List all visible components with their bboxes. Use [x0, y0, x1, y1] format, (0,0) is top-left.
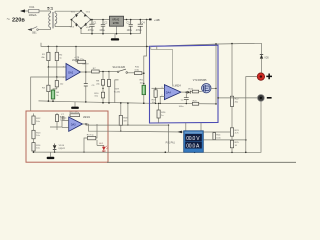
- resistor R9 on output vertical: [108, 72, 110, 103]
- diode VD2: [84, 12, 91, 17]
- wire vertical x128: [127, 103, 129, 125]
- node bottom bus divider: [231, 152, 233, 154]
- svg-text:DA2: DA2: [68, 71, 74, 75]
- resistor R14: [33, 151, 35, 152]
- diode VD4: [84, 23, 91, 29]
- svg-text:00.0 A: 00.0 A: [186, 144, 200, 150]
- resistor R17 in box right: [88, 136, 96, 139]
- transistor VT1 MOSFET: [202, 84, 211, 93]
- divider chain R22: [231, 44, 233, 97]
- svg-text:100к: 100к: [134, 69, 139, 71]
- switch SB1: [30, 27, 38, 31]
- ground bar in red box: [50, 152, 52, 157]
- svg-text:~: ~: [7, 17, 11, 23]
- wire DA4 output: [181, 91, 186, 93]
- wire DA3 output branches: [83, 124, 109, 131]
- svg-text:15к: 15к: [94, 96, 97, 98]
- capacitor C3: [129, 20, 133, 34]
- wire bottom long ground: [107, 161, 296, 163]
- node gnd reg: [116, 33, 118, 35]
- node R2 bottom: [56, 76, 58, 78]
- node rail C3: [130, 19, 132, 21]
- potentiometer R11 green right: [142, 85, 146, 95]
- node bridge right: [90, 19, 92, 21]
- node rail C1: [91, 19, 93, 21]
- resistor R16 horizontal above op-amp: [70, 114, 80, 117]
- arrow on bottom AC line: [28, 28, 33, 31]
- svg-text:10к: 10к: [36, 135, 39, 137]
- svg-text:DA3: DA3: [71, 123, 76, 126]
- svg-text:R6 470к: R6 470к: [76, 59, 84, 61]
- ground bar under regulator: [114, 34, 116, 39]
- svg-text:КД522: КД522: [59, 148, 66, 150]
- resistor R13: [33, 139, 35, 143]
- TL431 VD9: [115, 80, 119, 103]
- diode VD11: [187, 91, 190, 94]
- rail end tick: [149, 19, 152, 21]
- node supply R2 top: [56, 46, 58, 48]
- wire DA1 noninv input: [48, 66, 66, 68]
- svg-text:DA4: DA4: [166, 91, 172, 95]
- node bridge left: [71, 19, 73, 21]
- wire feed from rail down: [144, 20, 147, 86]
- wire feedback vertical with capacitor C5: [85, 62, 87, 102]
- node R10 to feed: [143, 72, 145, 74]
- node plus wire at bottom bus: [245, 152, 247, 154]
- node bus R3: [48, 100, 50, 102]
- arrow into meter: [178, 131, 182, 134]
- node bus pot left: [52, 100, 54, 102]
- node R1 bottom: [48, 66, 50, 68]
- resistor R10: [135, 72, 142, 75]
- op-amp DA2.1: [66, 64, 81, 81]
- resistor R6 feedback top: [75, 46, 77, 48]
- wire secondary top to bridge: [55, 10, 81, 12]
- wire meter right top to divider: [203, 131, 232, 133]
- svg-text:00.0 V: 00.0 V: [186, 136, 200, 142]
- meter module PV1/PA1: [184, 131, 204, 153]
- svg-text:20к: 20к: [235, 101, 238, 103]
- svg-text:10к: 10к: [152, 102, 155, 104]
- resistor R3 lower left chain: [47, 67, 49, 101]
- terminal plus: [257, 73, 264, 80]
- wire secondary bottom to bridge left: [55, 20, 71, 27]
- node bottom bus x194: [194, 152, 196, 154]
- node rail C4: [140, 19, 142, 21]
- node bridge bottom: [80, 28, 82, 30]
- svg-text:КР142: КР142: [112, 19, 119, 21]
- resistor R1: [47, 46, 49, 67]
- fuse FU1: [29, 9, 40, 12]
- svg-text:1М: 1М: [123, 120, 126, 122]
- ground bar on bus: [74, 102, 76, 107]
- wire meter right bottom shunt: [203, 139, 246, 141]
- wire vertical x213 from top wire to bus: [215, 44, 217, 104]
- svg-text:+12В: +12В: [154, 19, 160, 22]
- svg-text:220в: 220в: [12, 17, 25, 23]
- capacitor C4: [138, 20, 143, 34]
- svg-text:10к: 10к: [140, 82, 143, 84]
- regulator DA1: [110, 16, 124, 26]
- resistor R21 gate: [192, 90, 198, 93]
- svg-text:100н: 100н: [179, 106, 185, 108]
- wire stub inner rect second vertical: [156, 46, 158, 50]
- node rail C2: [102, 19, 104, 21]
- LED HL1: [103, 145, 105, 146]
- resistor R7 output: [92, 70, 100, 73]
- wire y131 from red box to meter: [108, 130, 184, 133]
- node rail reg out: [126, 19, 128, 21]
- node supply R1 top: [48, 46, 50, 48]
- svg-text:100мА: 100мА: [29, 13, 37, 17]
- svg-text:SB1: SB1: [32, 32, 37, 35]
- resistor R15 in box: [56, 113, 58, 127]
- svg-text:100н: 100н: [99, 29, 105, 32]
- svg-text:FU1: FU1: [30, 5, 35, 9]
- diode VD5 output: [261, 43, 263, 54]
- op-amp DA4: [164, 85, 181, 100]
- wire supply distribution long horizontal: [41, 43, 262, 47]
- svg-text:TL431: TL431: [114, 92, 121, 94]
- wire drain to vertical: [211, 87, 216, 89]
- transformer T1: [49, 11, 57, 30]
- red highlight box: [26, 111, 108, 162]
- resistor R26 in blue box bottom: [158, 103, 160, 122]
- svg-text:470м: 470м: [88, 29, 94, 32]
- wire +rail: [91, 19, 150, 21]
- svg-text:R17 1к: R17 1к: [87, 134, 94, 136]
- node bus R9: [108, 102, 110, 104]
- node output junction: [108, 71, 110, 73]
- wire plus to down corner: [246, 77, 257, 153]
- node gnd C3: [130, 33, 132, 35]
- resistor R23: [230, 128, 233, 136]
- resistor R2: [56, 46, 58, 77]
- resistor R20 on bus: [192, 102, 198, 105]
- svg-text:SA1 02-02R: SA1 02-02R: [113, 66, 126, 69]
- node gnd C2: [102, 33, 104, 35]
- capacitor C1: [89, 20, 94, 34]
- wire vertical x168: [168, 125, 170, 152]
- svg-text:10к: 10к: [36, 148, 39, 150]
- svg-text:R16 470к: R16 470к: [70, 112, 79, 114]
- wire meter stubs from blue box bottom: [186, 123, 201, 131]
- wires DA3 inputs: [50, 121, 69, 131]
- svg-text:10к: 10к: [36, 121, 39, 123]
- wire DA4 inv input: [160, 96, 164, 103]
- svg-text:LM324: LM324: [173, 84, 181, 87]
- svg-text:1к: 1к: [161, 115, 163, 117]
- wire DA4 noninv input: [152, 87, 165, 89]
- resistor R19 input divider: [155, 88, 156, 89]
- node supply feed join: [146, 46, 148, 48]
- svg-text:VT1 IRF5305: VT1 IRF5305: [193, 80, 207, 82]
- node bridge top: [80, 10, 82, 12]
- arrow on top AC line: [20, 9, 25, 12]
- svg-text:100н: 100н: [127, 29, 133, 32]
- svg-text:10к: 10к: [60, 84, 63, 86]
- resistor R18 external right of red box: [120, 103, 122, 131]
- wire top AC line: [21, 10, 51, 12]
- svg-text:43к: 43к: [41, 57, 44, 59]
- svg-text:VD10: VD10: [59, 145, 65, 147]
- resistor R12: [33, 114, 35, 131]
- wire box bottom internal: [34, 140, 104, 152]
- shunt R24: [213, 133, 216, 140]
- AC source label 220V: [7, 17, 26, 24]
- svg-text:24к: 24к: [96, 83, 99, 85]
- node bus at green pot done; node bus end: [215, 103, 217, 105]
- potentiometer R6 green left: [51, 90, 55, 99]
- wire minus to blue box: [218, 97, 257, 99]
- wire long bottom bus y152: [34, 101, 262, 152]
- resistor R5 below R2: [53, 77, 57, 90]
- terminal minus: [258, 95, 265, 102]
- diode VD3: [70, 23, 78, 29]
- diode VD1: [71, 12, 78, 18]
- svg-text:1к: 1к: [59, 57, 61, 59]
- wire y125 from red box to x168: [108, 124, 169, 126]
- node bottom bus x168: [165, 151, 167, 153]
- svg-text:2к: 2к: [56, 95, 58, 97]
- svg-text:4.7к: 4.7к: [235, 133, 239, 135]
- svg-text:ЕН8Б: ЕН8Б: [113, 23, 119, 25]
- wire lower common bus left: [39, 101, 217, 104]
- svg-text:5:1: 5:1: [47, 5, 54, 10]
- wire bottom AC line: [29, 29, 31, 31]
- svg-text:PV1 РА1: PV1 РА1: [166, 141, 176, 144]
- svg-text:LM321: LM321: [83, 117, 91, 119]
- node gnd C1: [91, 33, 93, 35]
- resistor chain R8 R9 TL431: [102, 72, 104, 103]
- wire inner supply to DA4: [151, 46, 173, 86]
- regulator ground pin: [116, 26, 118, 34]
- bridge rectifier diamond frame: [71, 11, 90, 29]
- blue highlight box: [150, 45, 219, 123]
- wire DA1 output: [81, 71, 110, 73]
- svg-text:470м: 470м: [136, 29, 142, 32]
- capacitor C2: [101, 20, 105, 34]
- wire ground rail: [81, 28, 140, 33]
- diode VD10 in box: [54, 144, 56, 146]
- op-amp DA3: [69, 117, 83, 131]
- capacitor C9 output to bus: [185, 92, 187, 103]
- wire DA1 inv input from feedback corner: [31, 77, 66, 111]
- capacitor C7 in box: [60, 117, 66, 119]
- resistor R25: [230, 140, 233, 148]
- node rail feed: [146, 19, 148, 21]
- svg-text:VD5: VD5: [264, 58, 269, 60]
- switch SA1: [109, 71, 117, 73]
- node bus R8 chain: [102, 102, 104, 104]
